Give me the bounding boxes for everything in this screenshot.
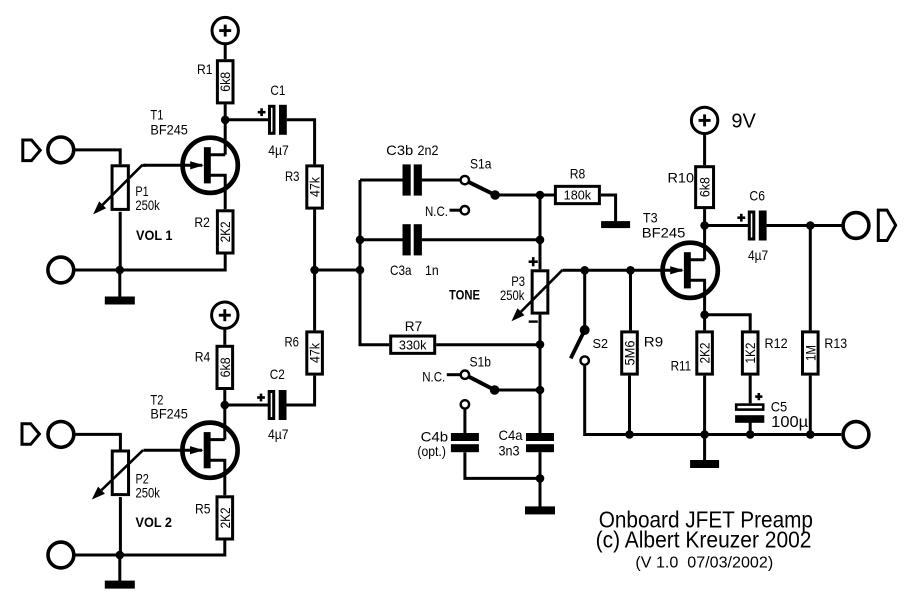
P2 value 250k bbox=[136, 484, 161, 500]
wire R12 to C5 bbox=[749, 376, 752, 404]
wire bus to C3a bbox=[360, 238, 403, 241]
potentiometer P2 box bbox=[112, 451, 128, 495]
svg-text:R7: R7 bbox=[405, 318, 423, 334]
R11 value label 2K2 bbox=[697, 342, 713, 363]
wire C1 to R3 bbox=[287, 120, 315, 165]
P3 minus label bbox=[529, 320, 538, 322]
wire C6 to output jack bbox=[767, 224, 843, 227]
P3 value 250k bbox=[500, 287, 525, 303]
junction gate / S2 bbox=[580, 266, 589, 275]
wire R2 to ground rail bbox=[74, 255, 225, 271]
switch S1a blade bbox=[468, 182, 495, 195]
switch S2 blade (open) bbox=[571, 330, 585, 358]
svg-text:180k: 180k bbox=[564, 188, 592, 203]
junction rail / R13 bbox=[806, 430, 815, 439]
svg-text:(V 1.0 07/03/2002): (V 1.0 07/03/2002) bbox=[635, 555, 773, 572]
bus S1a node down to C3a row bbox=[539, 195, 542, 240]
capacitor C4a plates bbox=[526, 433, 554, 452]
T1 gate wire with arrow bbox=[144, 161, 204, 169]
ground symbol at R8 bbox=[601, 221, 630, 228]
transistor T3 body circle bbox=[663, 243, 718, 298]
R12 value label 1K2 bbox=[742, 342, 758, 363]
resistor R7 box bbox=[391, 336, 435, 353]
svg-text:R13: R13 bbox=[824, 335, 847, 351]
svg-text:4µ7: 4µ7 bbox=[748, 247, 768, 263]
resistor R12 box bbox=[742, 332, 758, 374]
wire R11 to rail bbox=[703, 376, 706, 435]
ground jack channel 1 bbox=[48, 257, 74, 283]
transistor T1 body circle bbox=[183, 138, 238, 193]
svg-text:C2: C2 bbox=[270, 366, 285, 382]
junction rail / R9 bbox=[625, 430, 634, 439]
capacitor C4b plates bbox=[451, 433, 479, 452]
junction output / R13 bbox=[806, 221, 815, 230]
resistor R4 box bbox=[217, 346, 233, 388]
svg-text:R11: R11 bbox=[671, 358, 692, 374]
label VOL 1 bbox=[136, 227, 173, 243]
capacitor C3a plates bbox=[403, 224, 422, 255]
junction node T1 drain / C1 bbox=[221, 116, 230, 125]
wire supply to R10 bbox=[703, 134, 706, 166]
C2 value 4µ7 bbox=[268, 426, 289, 442]
C1 polarity + bbox=[258, 108, 266, 116]
junction node T2 drain / C2 bbox=[221, 401, 230, 410]
left mixing bus bbox=[359, 180, 362, 345]
ground jack channel 2 bbox=[48, 542, 74, 568]
label R8 bbox=[570, 166, 586, 182]
svg-text:4µ7: 4µ7 bbox=[268, 426, 289, 442]
label C3b bbox=[386, 142, 413, 158]
label R7 bbox=[405, 318, 423, 334]
label P1 bbox=[135, 183, 148, 199]
svg-text:VOL 2: VOL 2 bbox=[136, 514, 173, 530]
svg-text:6k8: 6k8 bbox=[697, 177, 713, 197]
junction bus / R7 row bbox=[536, 340, 545, 349]
resistor R1 box bbox=[217, 61, 233, 103]
wire R8 to ground bbox=[601, 195, 616, 222]
resistor R6 box bbox=[307, 332, 323, 374]
junction rail / R11 ground bbox=[700, 430, 709, 439]
label S2 bbox=[593, 336, 609, 351]
wire supply to R4 bbox=[223, 328, 226, 344]
wire node to R8 bbox=[540, 194, 555, 197]
potentiometer P3 box bbox=[532, 271, 548, 313]
svg-text:TONE: TONE bbox=[449, 287, 480, 303]
R13 value label 1M bbox=[802, 345, 818, 361]
resistor R11 box bbox=[697, 332, 713, 374]
wire C4a to ground node bbox=[539, 452, 542, 478]
T3 source lead bbox=[687, 280, 705, 315]
svg-text:R6: R6 bbox=[285, 334, 300, 350]
svg-text:2K2: 2K2 bbox=[217, 221, 233, 242]
junction bus / S1b row bbox=[536, 386, 545, 395]
svg-text:C3a: C3a bbox=[390, 262, 412, 278]
wire R3 node to bus bbox=[315, 269, 360, 272]
label R4 bbox=[195, 349, 211, 365]
svg-text:1n: 1n bbox=[425, 262, 439, 278]
wire P2 to ground node bbox=[119, 497, 122, 555]
svg-text:BF245: BF245 bbox=[150, 406, 188, 422]
P3 bottom to tone bus bbox=[539, 315, 542, 433]
capacitor C1 plates bbox=[270, 105, 287, 135]
ground symbol output stage bbox=[690, 435, 719, 469]
wire R3 to node bbox=[313, 210, 316, 270]
R8 value label 180k bbox=[564, 188, 592, 203]
R7 value label 330k bbox=[399, 337, 427, 352]
svg-text:N.C.: N.C. bbox=[422, 369, 445, 385]
svg-text:(c) Albert Kreuzer 2002: (c) Albert Kreuzer 2002 bbox=[596, 527, 812, 553]
wire S1b contact to C4b bbox=[463, 409, 466, 434]
C6 polarity + bbox=[737, 214, 745, 222]
capacitor C6 plates bbox=[749, 211, 766, 241]
C5 polarity + bbox=[755, 393, 762, 400]
R10 value label 6k8 bbox=[697, 177, 713, 197]
output arrow bbox=[878, 210, 895, 240]
svg-text:3n3: 3n3 bbox=[499, 443, 520, 459]
svg-text:1K2: 1K2 bbox=[742, 342, 758, 363]
label VOL 2 bbox=[136, 514, 173, 530]
S1b N.C. contact bbox=[461, 371, 469, 379]
T3 channel bar bbox=[684, 252, 691, 288]
svg-text:R1: R1 bbox=[197, 61, 213, 77]
label S1b bbox=[470, 354, 492, 370]
label C3a bbox=[390, 262, 412, 278]
S1b throw contact to C4b bbox=[461, 400, 469, 408]
channel 1 ground rail bbox=[74, 269, 225, 272]
wire bus to R7 bbox=[360, 343, 389, 346]
S2 lower contact bbox=[581, 356, 589, 364]
junction gate / R9 bbox=[626, 266, 635, 275]
svg-text:R3: R3 bbox=[285, 168, 300, 184]
wire supply to R1 bbox=[224, 44, 227, 59]
T1 channel bar bbox=[204, 147, 211, 183]
C5 value 100µ bbox=[771, 414, 808, 431]
svg-text:4µ7: 4µ7 bbox=[268, 142, 289, 158]
P2 wiper arrow bbox=[92, 450, 143, 499]
wire S1b to bus bbox=[495, 389, 540, 392]
R3 value label 47k bbox=[307, 176, 323, 197]
svg-text:330k: 330k bbox=[399, 337, 427, 352]
svg-text:S1b: S1b bbox=[470, 354, 492, 370]
label R3 bbox=[285, 168, 300, 184]
svg-text:BF245: BF245 bbox=[150, 121, 188, 137]
wire node to C2 bbox=[229, 404, 268, 407]
svg-text:6k8: 6k8 bbox=[217, 357, 233, 377]
resistor R3 box bbox=[307, 166, 323, 208]
junction T3 source node bbox=[700, 311, 709, 320]
svg-text:2K2: 2K2 bbox=[697, 342, 713, 363]
wire R13 down bbox=[809, 226, 812, 331]
T2 source lead bbox=[207, 460, 225, 495]
junction R3/R6 node bbox=[310, 266, 319, 275]
label T2 bbox=[150, 392, 163, 408]
title line 3 bbox=[635, 555, 773, 572]
wire bus to C3b bbox=[360, 179, 403, 182]
wire R6 top to node bbox=[313, 270, 316, 330]
svg-text:C6: C6 bbox=[749, 188, 765, 204]
T3 drain lead bbox=[687, 258, 705, 261]
output jack bottom bbox=[843, 422, 869, 448]
capacitor C2 plates bbox=[269, 390, 286, 420]
capacitor C5 plates bbox=[735, 405, 764, 423]
power supply + symbol (channel 2) bbox=[212, 302, 238, 328]
capacitor C3b plates bbox=[403, 164, 422, 195]
resistor R9 box bbox=[622, 332, 638, 374]
power supply + symbol 9V bbox=[691, 107, 717, 133]
label R2 bbox=[194, 214, 210, 230]
junction ground node channel 1 bbox=[116, 266, 125, 275]
svg-text:47k: 47k bbox=[307, 342, 323, 363]
svg-text:R8: R8 bbox=[570, 166, 586, 182]
label 9V bbox=[731, 111, 756, 133]
label N.C. (S1b) bbox=[422, 369, 445, 385]
transistor T2 body circle bbox=[182, 423, 237, 478]
label R11 bbox=[671, 358, 692, 374]
label T3 type BF245 bbox=[642, 224, 686, 240]
svg-text:R10: R10 bbox=[668, 169, 695, 185]
input arrow channel 2 bbox=[22, 424, 39, 445]
svg-text:47k: 47k bbox=[307, 176, 323, 197]
svg-text:N.C.: N.C. bbox=[425, 203, 448, 219]
T1 source lead bbox=[207, 175, 225, 209]
label N.C. (S1a) bbox=[425, 203, 448, 219]
R1 value label 6k8 bbox=[217, 72, 233, 92]
junction ground node channel 2 bbox=[116, 551, 125, 560]
svg-text:2K2: 2K2 bbox=[217, 507, 233, 528]
wire C5 to rail bbox=[749, 422, 752, 434]
wire T3 source to R11 bbox=[703, 315, 706, 331]
resistor R13 box bbox=[803, 332, 819, 374]
label C5 bbox=[771, 399, 788, 415]
S2 pivot bbox=[580, 325, 590, 335]
svg-text:C1: C1 bbox=[270, 82, 285, 98]
label R6 bbox=[285, 334, 300, 350]
right bus to P3 top bbox=[539, 240, 542, 269]
svg-text:1M: 1M bbox=[802, 345, 818, 361]
svg-text:S2: S2 bbox=[593, 336, 609, 351]
svg-text:5M6: 5M6 bbox=[622, 340, 638, 365]
junction right bus / C3a row bbox=[536, 236, 545, 245]
wire R9 to rail bbox=[628, 376, 631, 435]
C3a value 1n bbox=[425, 262, 439, 278]
svg-text:R4: R4 bbox=[195, 349, 211, 365]
svg-text:250k: 250k bbox=[500, 287, 525, 303]
svg-text:9V: 9V bbox=[731, 111, 756, 133]
title line 1 bbox=[599, 507, 813, 533]
wire R4 to node drain T2 bbox=[223, 390, 226, 440]
wire S1a to node bbox=[495, 194, 540, 197]
C1 value 4µ7 bbox=[268, 142, 289, 158]
power supply + symbol (channel 1) bbox=[212, 17, 238, 43]
label P3 bbox=[511, 273, 525, 289]
R9 value label 5M6 bbox=[622, 340, 638, 365]
svg-text:250k: 250k bbox=[136, 484, 161, 500]
label T3 bbox=[643, 210, 658, 226]
wire node to C1 bbox=[229, 118, 268, 121]
svg-text:R12: R12 bbox=[765, 335, 788, 351]
T3 gate wire with arrow bbox=[563, 266, 684, 274]
wire node to C6 bbox=[705, 224, 749, 227]
input arrow channel 1 bbox=[23, 140, 40, 161]
resistor R5 box bbox=[217, 497, 233, 539]
svg-text:C5: C5 bbox=[771, 399, 788, 415]
wire P1 to ground node bbox=[119, 212, 122, 270]
label P2 bbox=[136, 471, 149, 487]
svg-text:C3b: C3b bbox=[386, 142, 413, 158]
wire jack to P2 bbox=[74, 434, 120, 449]
label R9 bbox=[644, 334, 664, 350]
ground symbol tone network bbox=[525, 478, 555, 514]
label C1 bbox=[270, 82, 285, 98]
S1a pivot bbox=[490, 190, 500, 200]
wire S2 branch bbox=[583, 270, 586, 330]
N.C. stub wire (S1a) bbox=[450, 209, 460, 212]
C3b value 2n2 bbox=[418, 142, 439, 158]
label R5 bbox=[195, 501, 211, 517]
label R12 bbox=[765, 335, 788, 351]
label C4a bbox=[499, 427, 523, 443]
P1 value 250k bbox=[135, 197, 160, 213]
label R13 bbox=[824, 335, 847, 351]
label R10 bbox=[668, 169, 695, 185]
wire R10 to T3 drain node bbox=[703, 209, 706, 260]
wire R9 branch bbox=[629, 270, 632, 330]
S1a N.C. contact bbox=[461, 206, 469, 214]
wire R7 to bus bbox=[436, 343, 540, 346]
junction bus / channel rails bbox=[356, 266, 365, 275]
C2 polarity + bbox=[257, 394, 265, 402]
R5 value label 2K2 bbox=[217, 507, 233, 528]
switch S1a throw contact bbox=[461, 176, 469, 184]
T1 drain lead bbox=[207, 153, 225, 156]
P3 wiper arrow bbox=[512, 270, 563, 322]
svg-text:(opt.): (opt.) bbox=[417, 443, 446, 459]
input jack channel 1 bbox=[48, 137, 74, 163]
junction C4a/C4b ground node bbox=[536, 474, 545, 483]
P1 wiper arrow bbox=[93, 165, 142, 215]
wire C3b to S1a bbox=[422, 179, 460, 182]
label T2 type BF245 bbox=[150, 406, 188, 422]
wire R5 to ground rail bbox=[74, 541, 225, 556]
wire C4b to node bbox=[465, 452, 540, 478]
junction rail / C5 bbox=[746, 430, 755, 439]
label C2 bbox=[270, 366, 285, 382]
label T1 bbox=[150, 107, 163, 123]
svg-text:T1: T1 bbox=[150, 107, 163, 123]
svg-text:VOL 1: VOL 1 bbox=[136, 227, 173, 243]
label T1 type BF245 bbox=[150, 121, 188, 137]
svg-text:2n2: 2n2 bbox=[418, 142, 439, 158]
resistor R8 box bbox=[555, 186, 599, 203]
junction S1a out / R8 / bus bbox=[536, 191, 545, 200]
ground symbol channel 1 bbox=[105, 270, 135, 305]
wire jack to P1 bbox=[74, 150, 120, 164]
T2 channel bar bbox=[204, 432, 211, 468]
label R1 bbox=[197, 61, 213, 77]
wire C3a to right bus bbox=[422, 238, 540, 241]
potentiometer P1 box bbox=[112, 166, 128, 210]
svg-text:C4a: C4a bbox=[499, 427, 523, 443]
svg-text:R2: R2 bbox=[194, 214, 210, 230]
wire C2 to R6 bbox=[287, 376, 315, 405]
R6 value label 47k bbox=[307, 342, 323, 363]
svg-text:6k8: 6k8 bbox=[217, 72, 233, 92]
switch S1b blade bbox=[468, 376, 494, 390]
input jack channel 2 bbox=[48, 422, 74, 448]
label C4b bbox=[421, 429, 449, 445]
wire R13 to rail bbox=[809, 376, 812, 435]
R4 value label 6k8 bbox=[217, 357, 233, 377]
resistor R2 box bbox=[217, 211, 233, 253]
svg-text:100µ: 100µ bbox=[771, 414, 808, 431]
svg-text:BF245: BF245 bbox=[642, 224, 686, 240]
label S1a bbox=[470, 156, 492, 172]
P3 polarity + bbox=[529, 257, 538, 266]
P1 wiper to T1 gate bbox=[143, 164, 147, 167]
C4b note (opt.) bbox=[417, 443, 446, 459]
T2 drain lead bbox=[207, 438, 225, 441]
title line 2 bbox=[596, 527, 812, 553]
wire R1 to node drain T1 bbox=[224, 104, 227, 154]
label C6 bbox=[749, 188, 765, 204]
output jack top bbox=[843, 213, 869, 239]
junction bus / C3a row bbox=[356, 236, 365, 245]
svg-text:T3: T3 bbox=[643, 210, 658, 226]
R2 value label 2K2 bbox=[217, 221, 233, 242]
label TONE bbox=[449, 287, 480, 303]
junction T3 drain / C6 bbox=[700, 221, 709, 230]
ground symbol channel 2 bbox=[105, 555, 135, 589]
wire source node to R12 bbox=[705, 315, 751, 331]
T2 gate wire with arrow bbox=[144, 446, 204, 454]
S1b pivot bbox=[490, 385, 500, 395]
N.C. stub wire (S1b) bbox=[447, 373, 460, 376]
svg-text:S1a: S1a bbox=[470, 156, 492, 172]
wire S2 contact to rail bbox=[585, 365, 842, 435]
svg-text:250k: 250k bbox=[135, 197, 160, 213]
C6 value 4µ7 bbox=[748, 247, 768, 263]
svg-text:R5: R5 bbox=[195, 501, 211, 517]
resistor R10 box bbox=[696, 167, 714, 208]
C4a value 3n3 bbox=[499, 443, 520, 459]
svg-text:R9: R9 bbox=[644, 334, 664, 350]
